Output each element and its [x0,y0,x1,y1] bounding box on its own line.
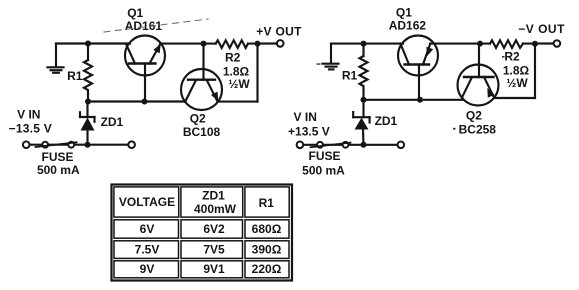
transistor Q1 AD161 [125,36,165,102]
svg-text:BC258: BC258 [459,123,497,137]
svg-text:Q1: Q1 [396,5,412,19]
svg-text:AD161: AD161 [125,19,163,33]
table outer frame [112,185,293,281]
node: R1 bottom [85,99,91,105]
table header cells [114,187,179,217]
svg-text:390Ω: 390Ω [252,242,282,256]
fuse (left) [36,142,77,148]
svg-text:+13.5 V: +13.5 V [288,124,330,138]
svg-text:FUSE: FUSE [308,149,340,163]
wire: junction to -V OUT terminal [523,42,554,44]
zener diode ZD1 (right) [353,100,369,145]
svg-text:ZD1: ZD1 [375,114,398,128]
resistor R1 (left) [84,44,92,102]
transistor Q1 AD162 [398,36,438,100]
svg-text:R2: R2 [225,51,241,65]
terminal: bottom right (left circuit) [128,141,135,148]
svg-text:V IN: V IN [294,110,317,124]
node: Q1 base at lower rail (right) [417,97,423,103]
svg-text:R2: R2 [504,50,520,64]
svg-text:BC108: BC108 [183,125,221,139]
wire: left bottom rail [29,144,129,146]
wire: stub from vertical to Q2 emitter [219,101,258,103]
node: output junction (left) [255,41,261,47]
svg-text:6V: 6V [140,222,155,236]
svg-text:500 mA: 500 mA [302,164,345,178]
svg-text:ZD1: ZD1 [202,189,225,203]
svg-text:FUSE: FUSE [41,150,73,164]
svg-text:½W: ½W [228,77,250,91]
terminal: V IN right [297,142,304,149]
wire: top rail from Q1 emitter to R2 (right) [430,43,490,45]
wire: junction to +V OUT terminal [248,42,277,44]
node: Q2 base stem at top rail [201,41,207,47]
fuse (right) [311,142,351,148]
svg-text:680Ω: 680Ω [252,222,282,236]
node: Q1 base at lower rail [142,99,148,105]
table row 6V cells [114,220,179,238]
node: zener anode at bottom rail (right) [361,142,367,148]
speck before R2 (right) [502,56,505,58]
wire: right side vertical of right circuit [534,44,536,98]
wire: left lower rail [88,100,185,102]
node: top of R1 [85,41,91,47]
transistor Q2 BC108 [181,44,222,110]
svg-text:9V1: 9V1 [203,262,225,276]
svg-text:VOLTAGE: VOLTAGE [119,195,175,209]
node: output junction (right) [532,41,538,47]
svg-text:−V OUT: −V OUT [518,22,565,36]
node: zener anode at bottom rail [85,142,91,148]
wire: stub from vertical to Q2 emitter (right) [495,97,536,99]
wire: left top rail from ground to Q1 collector [56,42,130,44]
svg-text:400mW: 400mW [194,202,237,216]
svg-text:7.5V: 7.5V [135,242,160,256]
svg-text:9V: 9V [140,262,155,276]
svg-text:−13.5 V: −13.5 V [9,121,52,135]
svg-text:ZD1: ZD1 [101,115,124,129]
svg-text:R1: R1 [259,196,275,210]
svg-text:V IN: V IN [17,108,40,122]
svg-text:6V2: 6V2 [203,222,225,236]
speck before BC258 [453,128,456,130]
wire: right lower rail [364,99,463,101]
resistor R2 (right) [490,40,523,48]
svg-text:R1: R1 [342,69,358,83]
svg-text:Q2: Q2 [190,111,206,125]
terminal -V OUT [554,40,561,47]
zener diode ZD1 (left) [80,102,95,145]
svg-text:R1: R1 [67,69,83,83]
terminal: bottom right (right circuit) [398,142,405,149]
svg-text:7V5: 7V5 [203,242,225,256]
resistor R2 (left) [216,40,248,48]
node: Q2 base stem at top rail (right) [477,41,483,47]
wire: right top rail from ground to Q1 collector [331,43,403,45]
node: top of R1 (right) [361,41,367,47]
svg-text:Q1: Q1 [127,6,143,20]
terminal: V IN left [23,141,30,148]
svg-text:220Ω: 220Ω [252,262,282,276]
ground (right circuit) [323,44,339,70]
svg-text:500 mA: 500 mA [37,163,80,177]
ground (left circuit) [48,44,64,73]
pencil mark artifact [104,19,208,32]
svg-text:AD162: AD162 [389,19,427,33]
svg-text:½W: ½W [506,76,528,90]
wire: right bottom rail [303,144,398,146]
transistor Q2 BC258 [458,44,499,106]
wire: top rail from Q1 emitter to R2 [161,43,216,45]
speck left of right ground [317,63,321,65]
svg-text:Q2: Q2 [466,109,482,123]
terminal +V OUT [277,40,284,47]
node: R1 bottom (right) [361,97,367,103]
table row 9V cells [114,261,179,278]
svg-text:+V OUT: +V OUT [256,25,302,39]
wire: right side vertical of left circuit [256,44,258,102]
table row 7.5V cells [114,241,179,259]
resistor R1 (right) [360,44,368,100]
